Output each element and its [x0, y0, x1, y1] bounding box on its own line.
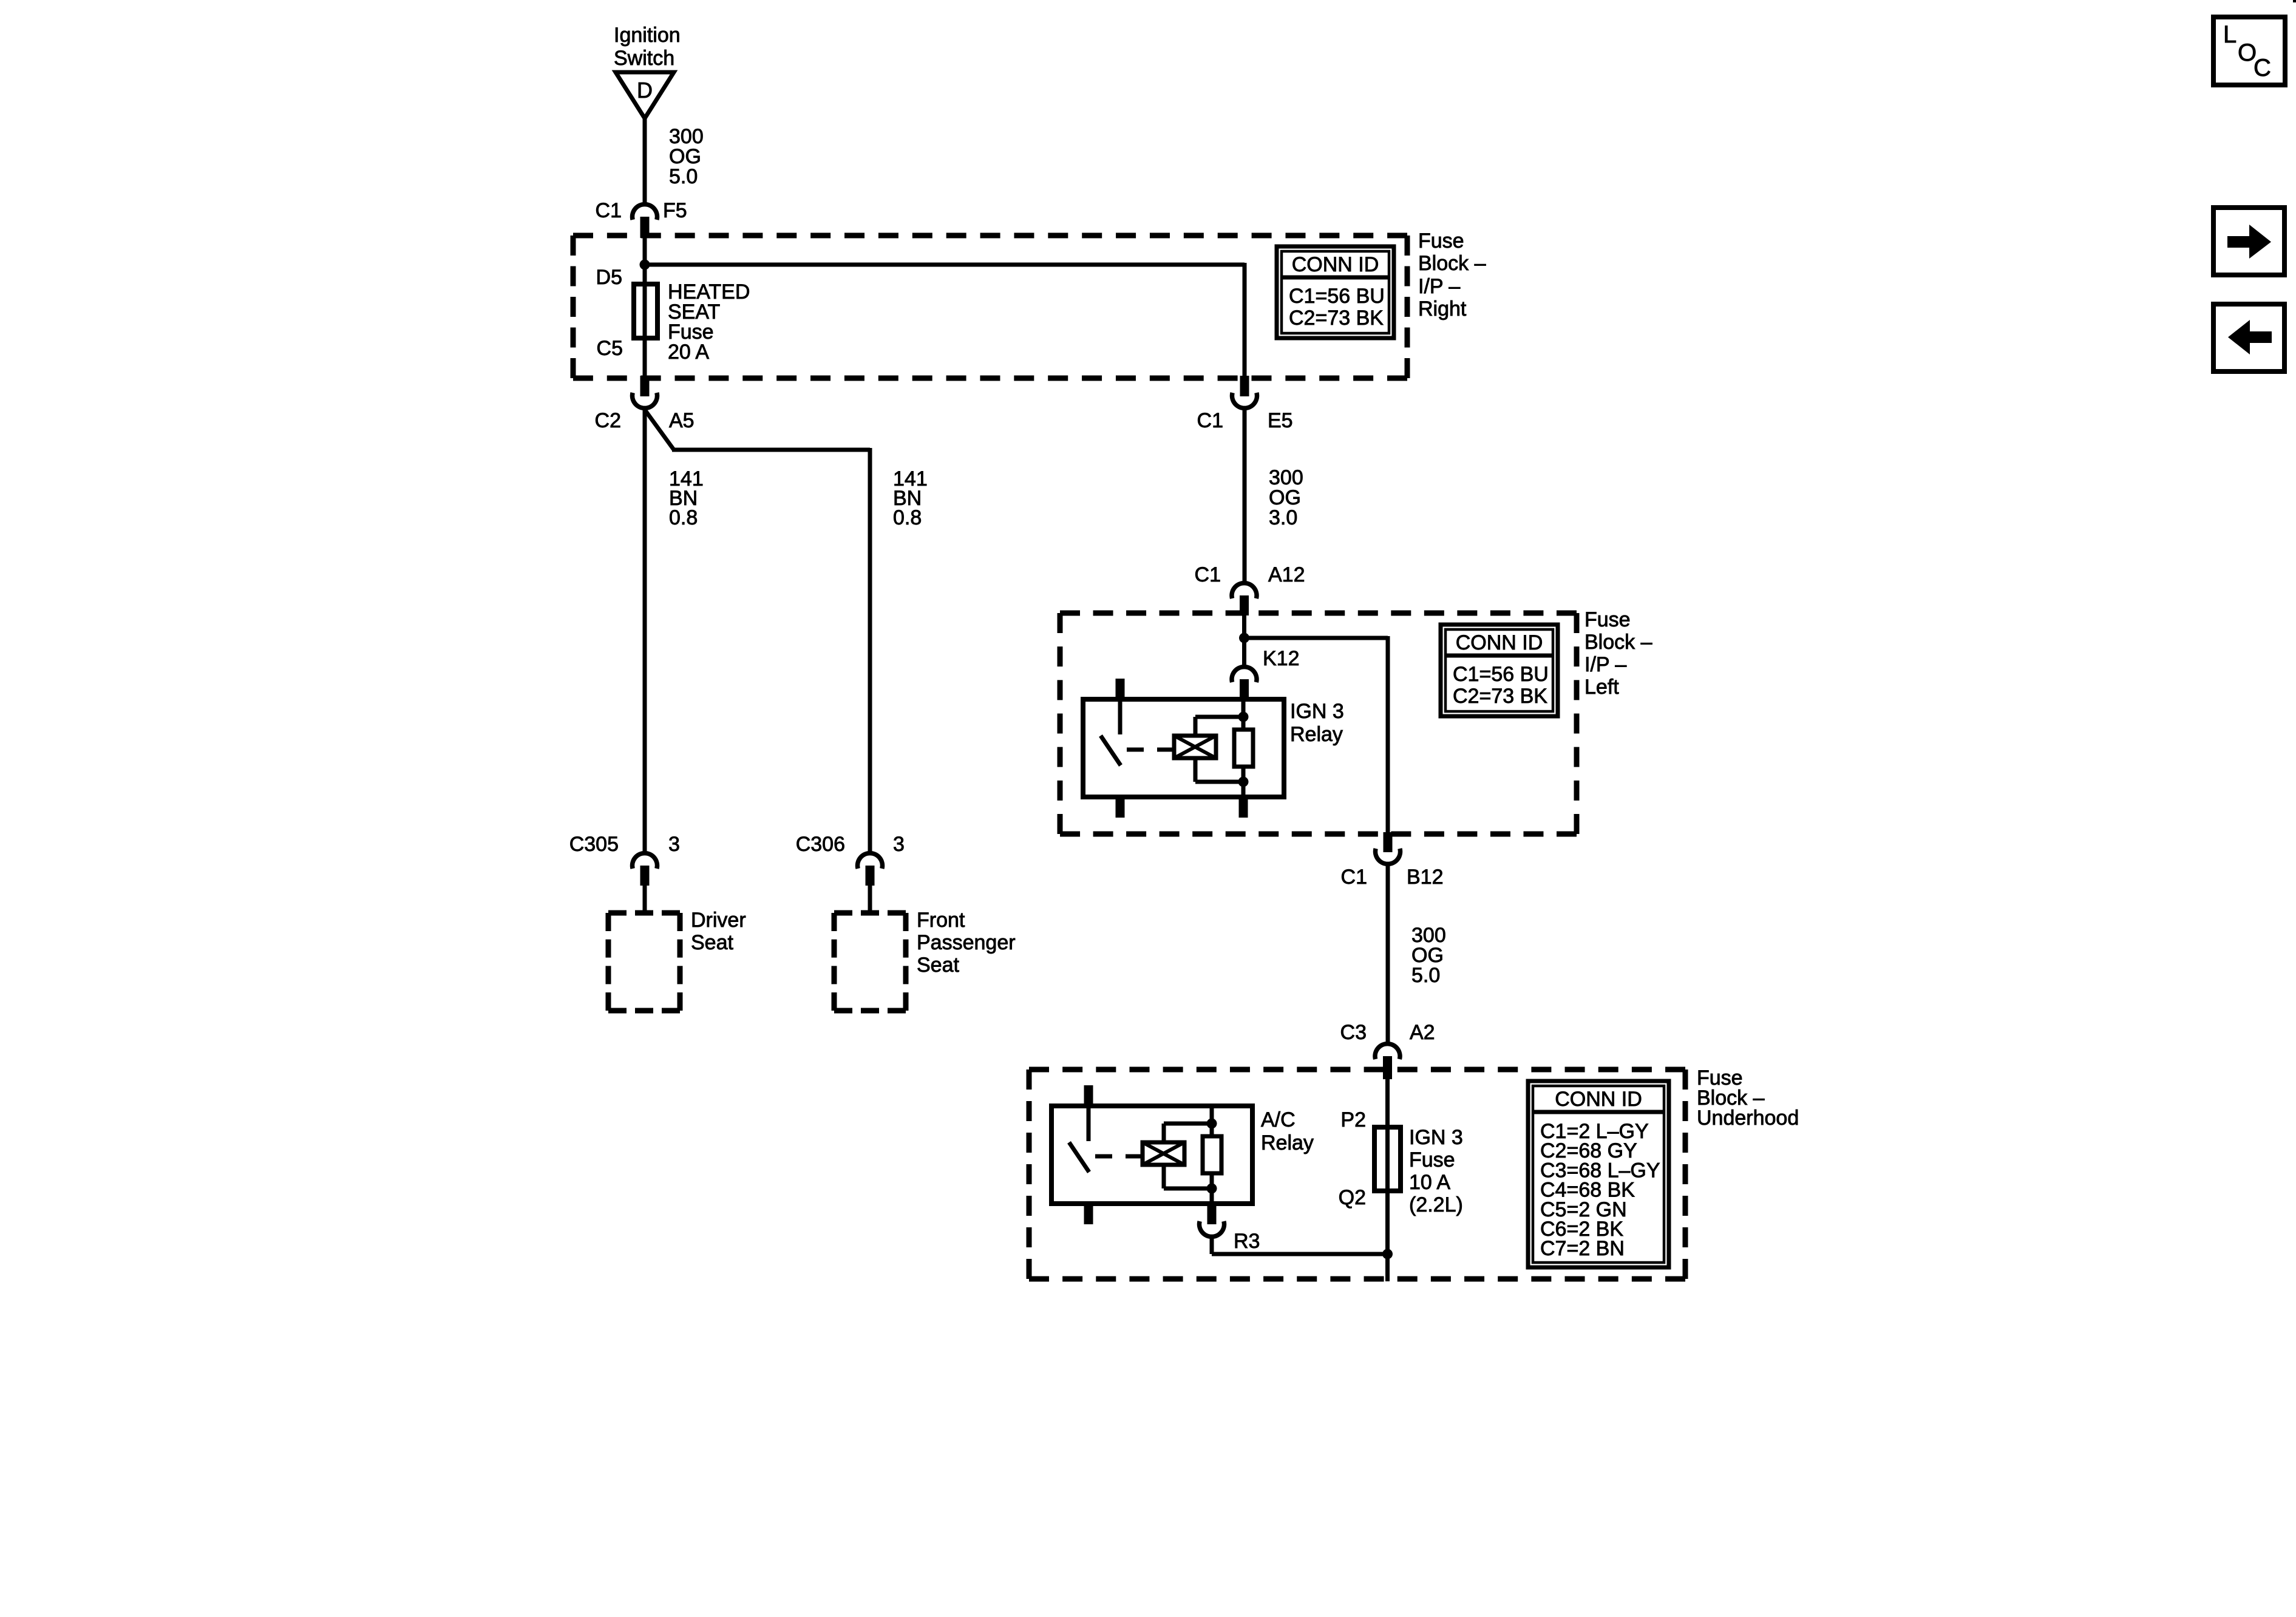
junction node R3/fuse	[1382, 1249, 1393, 1259]
svg-text:Seat: Seat	[917, 954, 959, 977]
svg-text:CONN ID: CONN ID	[1456, 631, 1543, 654]
wire label 141 BN 0.8 (passenger seat)	[893, 467, 928, 529]
junction node to B12 branch	[1239, 633, 1249, 643]
label Fuse Block - I/P - Left	[1584, 608, 1652, 699]
svg-text:Passenger: Passenger	[917, 931, 1016, 954]
svg-text:Driver: Driver	[691, 909, 746, 932]
fuse block I/P left dashed outline	[1060, 613, 1577, 834]
svg-text:C2=73 BK: C2=73 BK	[1289, 307, 1384, 330]
svg-text:C3: C3	[1340, 1021, 1367, 1044]
junction node D5 branch	[640, 260, 650, 270]
svg-text:D5: D5	[596, 266, 622, 289]
svg-text:C2: C2	[595, 409, 621, 432]
label Fuse Block - I/P - Right	[1418, 229, 1486, 320]
connector C306 pin 3	[796, 833, 905, 886]
wire branch down to E5 exit	[1243, 263, 1247, 377]
wire C306 to front passenger seat	[868, 886, 872, 913]
wire from A12 to K12	[1242, 614, 1246, 666]
fuse block I/P right dashed outline	[573, 236, 1407, 378]
fuse HEATED SEAT 20 A	[634, 284, 657, 338]
svg-text:0.8: 0.8	[893, 506, 922, 529]
wire branch to B12 (horizontal)	[1245, 636, 1388, 640]
wire B12 to A2	[1386, 865, 1390, 1043]
svg-text:Relay: Relay	[1290, 723, 1343, 746]
fuse IGN 3 10 A	[1374, 1127, 1401, 1191]
svg-text:C1: C1	[596, 199, 622, 222]
connector C1 F5 at fuse block I/P right	[596, 199, 687, 238]
svg-text:D: D	[637, 78, 653, 103]
terminal label Q2	[1339, 1186, 1366, 1209]
svg-text:Left: Left	[1584, 676, 1619, 699]
svg-text:E5: E5	[1268, 409, 1293, 432]
connector C1 B12 below fuse block I/P left	[1341, 832, 1444, 889]
svg-text:Fuse: Fuse	[1409, 1148, 1455, 1171]
connector R3 below A/C relay	[1199, 1204, 1260, 1253]
CONN ID table for fuse block I/P right	[1277, 246, 1394, 338]
wire label 300 OG 5.0 (ignition feed)	[669, 125, 704, 188]
forward arrow icon	[2213, 208, 2284, 275]
svg-text:Underhood: Underhood	[1697, 1107, 1799, 1130]
svg-text:Right: Right	[1418, 297, 1467, 320]
LOC page icon	[2213, 17, 2285, 85]
svg-text:K12: K12	[1263, 647, 1300, 670]
svg-text:C2=73 BK: C2=73 BK	[1453, 685, 1547, 708]
svg-text:A12: A12	[1268, 563, 1305, 586]
svg-text:C1=56 BU: C1=56 BU	[1289, 285, 1385, 308]
label Driver Seat	[691, 909, 746, 954]
wire from ignition switch to connector C1 F5	[643, 117, 647, 204]
svg-text:0.8: 0.8	[669, 506, 698, 529]
relay IGN 3 (fuse block I/P left)	[1083, 679, 1284, 818]
svg-text:3: 3	[668, 833, 680, 856]
connector C2 A5 below fuse block I/P right	[595, 376, 695, 432]
svg-text:Q2: Q2	[1339, 1186, 1366, 1209]
wire from A5 to C305 (driver seat feed)	[643, 409, 647, 852]
svg-text:L: L	[2223, 21, 2237, 48]
svg-text:C7=2 BN: C7=2 BN	[1540, 1237, 1625, 1260]
svg-text:3: 3	[893, 833, 905, 856]
label A/C Relay	[1261, 1108, 1314, 1154]
backward arrow icon	[2213, 304, 2284, 371]
connector C3 A2 at fuse block underhood	[1340, 1021, 1435, 1079]
label IGN 3 Fuse 10 A (2.2L)	[1409, 1126, 1463, 1216]
svg-text:A/C: A/C	[1261, 1108, 1296, 1131]
wire branch down to B12 exit	[1386, 636, 1390, 833]
svg-text:A5: A5	[669, 409, 695, 432]
svg-text:CONN ID: CONN ID	[1555, 1088, 1642, 1111]
svg-text:Ignition: Ignition	[614, 24, 681, 47]
terminal label P2	[1340, 1108, 1366, 1131]
svg-text:C1: C1	[1195, 563, 1221, 586]
wire from A2 down through IGN 3 fuse to box edge	[1385, 1078, 1390, 1281]
wire E5 to A12	[1243, 409, 1247, 583]
svg-text:C: C	[2254, 55, 2271, 81]
svg-text:R3: R3	[1234, 1230, 1260, 1253]
label Fuse Block - Underhood	[1697, 1066, 1799, 1130]
svg-text:Fuse: Fuse	[1418, 229, 1464, 253]
svg-text:Switch: Switch	[614, 47, 674, 70]
svg-text:F5: F5	[663, 199, 687, 222]
connector C1 E5 below fuse block I/P right	[1197, 376, 1293, 432]
svg-text:20 A: 20 A	[668, 341, 709, 364]
wire C305 to driver seat	[643, 886, 647, 913]
wire branch horizontal to front passenger feed	[672, 448, 870, 452]
svg-text:C1: C1	[1197, 409, 1223, 432]
wire from R3 down	[1210, 1238, 1214, 1254]
terminal label D5	[596, 266, 622, 289]
ignition switch symbol with label D	[614, 24, 681, 118]
wire down to C306 (passenger seat feed)	[868, 448, 872, 852]
svg-text:P2: P2	[1340, 1108, 1366, 1131]
svg-text:IGN 3: IGN 3	[1290, 700, 1344, 723]
label Front Passenger Seat	[917, 909, 1016, 977]
svg-text:C1=56 BU: C1=56 BU	[1453, 663, 1549, 686]
fuse block underhood dashed outline	[1029, 1070, 1685, 1279]
label IGN 3 Relay	[1290, 700, 1344, 746]
svg-text:C305: C305	[569, 833, 619, 856]
connector C1 A12 at fuse block I/P left	[1195, 563, 1305, 615]
svg-text:Front: Front	[917, 909, 965, 932]
svg-text:Seat: Seat	[691, 931, 733, 954]
driver seat dashed box	[608, 913, 680, 1011]
relay A/C (fuse block underhood)	[1051, 1085, 1252, 1224]
svg-text:C1: C1	[1341, 866, 1367, 889]
wire branch diagonal to front passenger feed	[645, 410, 674, 450]
CONN ID table for fuse block I/P left	[1441, 625, 1558, 716]
svg-text:Block –: Block –	[1418, 252, 1486, 275]
wire label 141 BN 0.8 (driver seat)	[669, 467, 704, 529]
svg-text:CONN ID: CONN ID	[1292, 253, 1379, 276]
front passenger seat dashed box	[834, 913, 906, 1011]
page corner mark	[2293, 0, 2296, 2]
svg-text:5.0: 5.0	[1411, 964, 1440, 987]
wire from pin F5 down through heated seat fuse to C2	[643, 237, 647, 378]
svg-text:A2: A2	[1410, 1021, 1435, 1044]
svg-text:IGN 3: IGN 3	[1409, 1126, 1463, 1149]
label HEATED SEAT Fuse 20 A	[668, 280, 750, 364]
svg-text:5.0: 5.0	[669, 165, 698, 188]
connector K12 at IGN 3 relay	[1232, 647, 1300, 699]
wire branch to E5 (horizontal)	[645, 263, 1245, 267]
svg-text:Fuse: Fuse	[1584, 608, 1631, 631]
CONN ID table for fuse block underhood	[1528, 1081, 1669, 1267]
wire from R3 to fuse output	[1212, 1252, 1388, 1256]
svg-text:Block –: Block –	[1584, 631, 1652, 654]
wire label 300 OG 5.0 (to underhood)	[1411, 924, 1446, 987]
svg-text:B12: B12	[1407, 866, 1444, 889]
svg-text:10 A: 10 A	[1409, 1171, 1450, 1194]
terminal label C5	[597, 337, 623, 360]
svg-text:I/P –: I/P –	[1584, 653, 1626, 676]
svg-text:C306: C306	[796, 833, 845, 856]
svg-text:C5: C5	[597, 337, 623, 360]
svg-text:I/P –: I/P –	[1418, 275, 1460, 298]
svg-text:(2.2L): (2.2L)	[1409, 1193, 1463, 1216]
connector C305 pin 3	[569, 833, 680, 886]
svg-text:Relay: Relay	[1261, 1131, 1314, 1154]
svg-text:3.0: 3.0	[1269, 506, 1297, 529]
wire label 300 OG 3.0	[1269, 466, 1303, 529]
